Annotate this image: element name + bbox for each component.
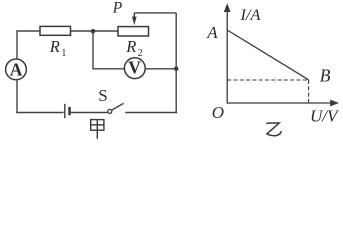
wiper arrow of R2 (132, 13, 137, 25)
wire voltmeter to right wire (145, 68, 176, 70)
rheostat R2 (118, 27, 149, 36)
svg-text:I/A: I/A (240, 5, 261, 24)
wire switch to right (125, 112, 177, 114)
svg-text:O: O (212, 103, 224, 122)
ammeter A (6, 59, 27, 80)
label yi (乙) (266, 123, 281, 136)
wire left vertical upper with top-left corner (17, 31, 40, 60)
wire node down to voltmeter branch (93, 31, 124, 69)
label jia (甲) (91, 120, 104, 139)
wire R1 to R2 (71, 30, 119, 32)
svg-text:R: R (125, 37, 136, 56)
switch S (108, 103, 124, 113)
wire wiper to top-right corner (134, 12, 176, 14)
svg-text:A: A (206, 23, 218, 42)
voltmeter V (124, 58, 145, 79)
svg-text:S: S (98, 86, 107, 105)
wire battery to switch (71, 112, 108, 114)
graph y-axis I/A (224, 3, 231, 103)
svg-text:U/V: U/V (310, 107, 340, 126)
wire left vertical lower (16, 80, 18, 113)
svg-text:B: B (320, 66, 331, 86)
wire right vertical (175, 13, 177, 113)
dashed line horizontal to B (227, 79, 308, 81)
wire bottom left (16, 112, 63, 114)
graph x-axis U/V (227, 100, 340, 107)
node on right wire (174, 67, 179, 72)
svg-text:1: 1 (61, 48, 66, 59)
node junction (91, 29, 96, 34)
battery (65, 104, 70, 118)
line A to B (227, 30, 308, 80)
svg-text:A: A (10, 59, 23, 79)
dashed line vertical from B (308, 80, 310, 103)
svg-text:P: P (112, 0, 123, 16)
svg-text:V: V (128, 58, 141, 78)
svg-text:R: R (49, 37, 60, 56)
resistor R1 (40, 26, 71, 35)
